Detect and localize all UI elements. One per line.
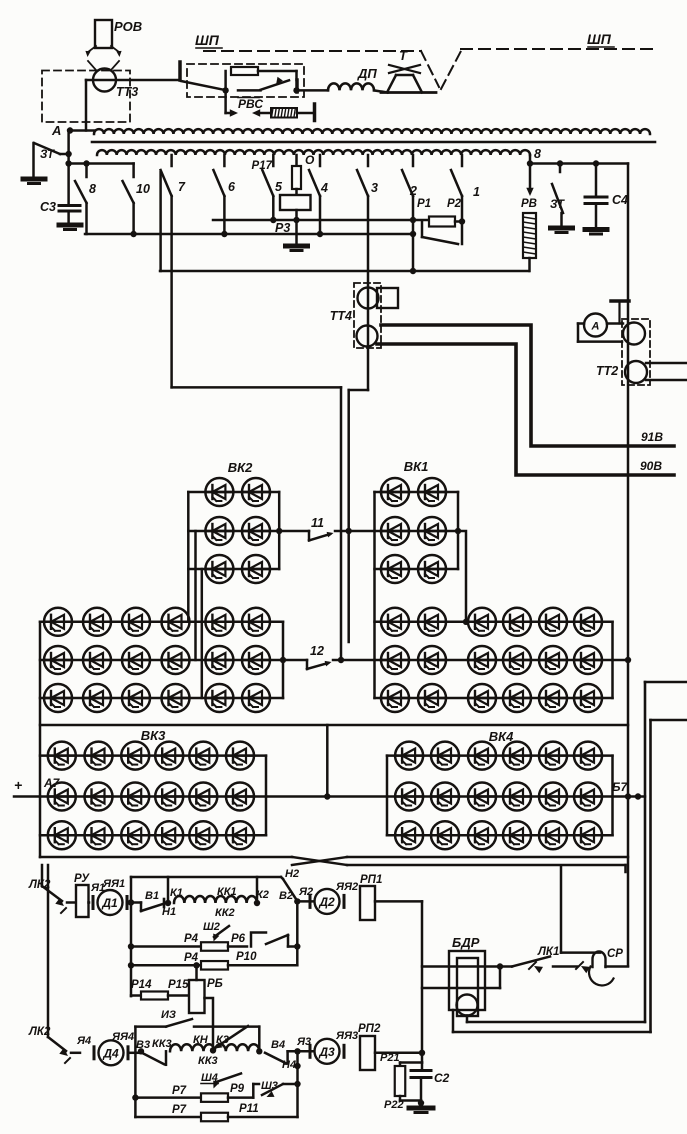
label VK3 <box>141 728 166 743</box>
relay BDR <box>449 935 485 1016</box>
svg-text:5: 5 <box>275 180 283 194</box>
box2 top edge <box>135 1009 259 1027</box>
label KK2 <box>215 907 235 919</box>
wire branch down <box>419 1050 425 1063</box>
svg-text:СР: СР <box>607 948 623 960</box>
svg-text:В1: В1 <box>145 890 159 902</box>
svg-text:Н4: Н4 <box>282 1059 296 1071</box>
right bus box2 <box>296 1051 299 1117</box>
wire D1 to box <box>128 899 141 905</box>
resistor R17 <box>252 160 301 189</box>
RVS dashed box <box>187 64 304 97</box>
net ShP left label <box>195 32 222 48</box>
svg-text:11: 11 <box>311 516 324 530</box>
svg-text:6: 6 <box>228 180 236 194</box>
switch contact bar <box>178 62 182 80</box>
label DP <box>357 66 377 81</box>
svg-text:Р11: Р11 <box>239 1103 259 1115</box>
label VK1 <box>404 459 429 474</box>
VK4 left edge <box>386 756 389 836</box>
wire conductor from TT3 <box>86 79 180 82</box>
svg-text:С3: С3 <box>40 200 56 214</box>
relay RP1 <box>360 874 382 920</box>
fuse POV <box>95 19 142 48</box>
wire RB to KN <box>205 998 214 1050</box>
svg-text:Д3: Д3 <box>318 1045 335 1059</box>
svg-text:3: 3 <box>371 181 378 195</box>
wire to D2 <box>297 886 313 901</box>
svg-text:В2: В2 <box>279 890 293 902</box>
left-mid row2 diodes <box>40 646 283 674</box>
switch ZT left <box>34 143 69 177</box>
svg-text:ВК4: ВК4 <box>489 729 514 744</box>
label YaYa2 <box>335 881 358 893</box>
svg-text:4: 4 <box>320 181 328 195</box>
VK3 right edge <box>265 756 268 836</box>
right-mid row2 diodes <box>375 646 632 674</box>
wire 91V <box>381 325 674 446</box>
svg-text:90В: 90В <box>640 459 662 473</box>
svg-text:КК3: КК3 <box>152 1038 172 1050</box>
node B7 <box>612 780 645 800</box>
switch 11 <box>279 516 374 540</box>
svg-text:Т: Т <box>399 48 408 63</box>
svg-text:РП1: РП1 <box>360 874 382 886</box>
rectifier VK4 row1 diodes <box>387 742 613 770</box>
motor D1 <box>93 890 127 915</box>
svg-text:12: 12 <box>310 644 324 658</box>
svg-text:КК2: КК2 <box>215 907 235 919</box>
bus right stub lower <box>651 720 687 1032</box>
capacitor C4 <box>585 164 628 229</box>
svg-text:А: А <box>591 321 600 333</box>
svg-text:КН: КН <box>193 1034 209 1046</box>
left-mid / VK3 left bus <box>39 622 42 857</box>
VK1 right edge <box>455 492 461 569</box>
net ShP right label <box>587 31 614 47</box>
rectifier VK2 row2 diodes <box>188 517 279 545</box>
node +A7 <box>14 776 61 797</box>
ground for R3 <box>286 246 308 251</box>
switch V2 N2 <box>279 868 300 905</box>
svg-text:2: 2 <box>409 184 417 198</box>
inductor DP <box>328 83 374 90</box>
node 8 <box>527 147 541 167</box>
svg-text:ВК3: ВК3 <box>141 728 166 743</box>
RVS plunger bar <box>297 104 315 121</box>
svg-text:Д1: Д1 <box>101 896 118 910</box>
bus crossover <box>40 857 628 872</box>
svg-text:С4: С4 <box>612 193 628 207</box>
RVS lower contact blade <box>238 77 289 91</box>
tap arrow Sh4 <box>201 1072 241 1089</box>
svg-text:А: А <box>51 123 61 138</box>
svg-text:Д4: Д4 <box>102 1046 119 1060</box>
wire R1 to tap1 <box>447 198 465 225</box>
VK1-rightmid left edge <box>373 492 376 698</box>
wire VK1 row2 to rightmid <box>458 531 469 625</box>
wire RP2 right <box>375 1052 422 1064</box>
wire VK2 row2 down <box>194 531 197 660</box>
wire to D4 <box>76 1031 134 1047</box>
tap 0 label <box>305 153 315 167</box>
row R4 R6 <box>128 933 301 951</box>
RVS heater coil hatched <box>271 108 297 118</box>
arrester T <box>381 48 436 93</box>
ammeter A <box>584 314 607 337</box>
VK2 left edge <box>187 492 190 622</box>
svg-text:ВК1: ВК1 <box>404 459 429 474</box>
relay RU <box>74 873 90 917</box>
wire feed line 387 <box>172 386 341 389</box>
wire 90V <box>377 344 674 475</box>
wire K3 branch <box>256 1027 262 1055</box>
switch V4 <box>265 1039 296 1071</box>
transformer TT4 <box>330 283 398 348</box>
svg-text:ДП: ДП <box>357 66 377 81</box>
wire left node verticals <box>65 131 71 206</box>
svg-text:ИЗ: ИЗ <box>161 1009 176 1021</box>
label VK4 <box>489 729 514 744</box>
svg-text:8: 8 <box>89 182 96 196</box>
svg-text:ТТ4: ТТ4 <box>330 309 352 323</box>
relay RP2 <box>358 1023 381 1070</box>
switch 12 <box>280 644 375 669</box>
resistor R1 <box>417 198 455 227</box>
bus right stub upper <box>645 682 687 1022</box>
svg-text:Н2: Н2 <box>285 868 299 880</box>
signal relay SR <box>589 948 628 985</box>
svg-text:Р17: Р17 <box>252 160 273 172</box>
left-mid right edge <box>282 622 285 698</box>
ground for C3 <box>59 225 81 230</box>
wire D4 to box <box>130 1052 142 1055</box>
switch V1 <box>141 890 176 918</box>
wire mid link bus <box>40 725 628 800</box>
svg-text:В4: В4 <box>271 1039 285 1051</box>
row R7 R11 <box>135 1103 297 1121</box>
rectifier VK3 row3 diodes <box>40 821 266 849</box>
svg-text:ЯЯ1: ЯЯ1 <box>102 878 125 890</box>
wire to D3 <box>288 1036 313 1055</box>
svg-text:Р7: Р7 <box>172 1085 187 1097</box>
RVS actuator arrows <box>226 90 271 116</box>
svg-text:РУ: РУ <box>74 873 90 885</box>
tap switch 6 <box>213 155 236 234</box>
bus right vertical <box>627 164 630 967</box>
svg-text:Р6: Р6 <box>231 933 246 945</box>
right-mid right edge <box>611 622 614 698</box>
svg-text:91В: 91В <box>641 430 663 444</box>
ground C2 <box>409 1108 433 1113</box>
svg-text:10: 10 <box>136 182 150 196</box>
wire RV down <box>528 258 531 271</box>
wire RU to D1 <box>89 878 126 903</box>
TT2 secondary wires <box>646 363 687 380</box>
rectifier VK1 row3 diodes <box>375 555 459 583</box>
switch ZT right <box>550 164 565 227</box>
svg-text:Р1: Р1 <box>417 198 431 210</box>
switch Sh3 <box>253 1063 300 1097</box>
wire TT4 jog <box>349 390 368 642</box>
svg-text:ШП: ШП <box>195 32 220 48</box>
node RVS-left <box>222 87 228 93</box>
wire bus to lower bus <box>410 220 416 271</box>
motor D3 <box>310 1039 344 1064</box>
tap switch 5 <box>262 155 283 220</box>
bus lower collector <box>160 268 529 274</box>
transformer TT3 <box>93 69 138 100</box>
switch V3 <box>136 1038 172 1065</box>
wire to DP <box>299 89 329 92</box>
transformer secondary winding <box>97 150 530 155</box>
wire taps 8-10 feed <box>69 162 134 165</box>
bus tap line lower <box>85 231 413 237</box>
capacitor C3 <box>40 200 80 224</box>
transformer primary winding <box>94 129 650 134</box>
relay RB <box>189 962 223 1013</box>
contact bar right <box>293 80 299 94</box>
switch LK2 upper <box>28 879 76 913</box>
svg-text:К3: К3 <box>216 1034 229 1046</box>
wire tap7 blade down <box>159 172 162 271</box>
switch LK1 <box>500 946 590 973</box>
relay R3 <box>275 189 311 235</box>
resistor R22 <box>384 1063 422 1112</box>
transformer core line <box>92 141 655 144</box>
wire K1 branch <box>165 877 183 906</box>
svg-text:Н1: Н1 <box>162 906 176 918</box>
rectifier VK1 row2 diodes <box>375 517 459 545</box>
tap switch 8 <box>75 160 96 234</box>
TT3 dashed box <box>42 71 130 123</box>
resistor RV hatched <box>523 213 536 258</box>
tap switch 10 <box>123 164 150 235</box>
wire RP1 right <box>375 900 422 903</box>
resistor RVS upper branch <box>226 67 297 90</box>
wire VK2 row3 down <box>201 569 204 698</box>
switch KN arrow <box>215 1026 249 1049</box>
relay RV arrow <box>521 164 537 211</box>
wire feed 12 vertical <box>340 387 343 660</box>
wire DP to T <box>374 90 388 92</box>
left-mid row3 diodes <box>40 684 283 712</box>
wire BDR input2 <box>422 967 500 989</box>
tap switch 3 <box>357 155 378 196</box>
label VK2 <box>228 460 253 475</box>
motor D2 <box>310 889 344 914</box>
wire BDR bottom out <box>467 1016 645 1023</box>
svg-text:Р10: Р10 <box>236 951 257 963</box>
transformer TT2 <box>596 319 650 385</box>
box1 top edge <box>131 876 281 879</box>
inductor KK3 <box>170 1034 259 1054</box>
ground ZT right <box>551 228 573 233</box>
svg-text:Р9: Р9 <box>230 1083 245 1095</box>
tap switch 7 <box>161 155 186 196</box>
svg-text:Р15: Р15 <box>168 979 189 991</box>
wire BDR input1 <box>422 963 503 969</box>
ground C4 <box>585 230 607 235</box>
label YaYa3 <box>335 1030 358 1042</box>
switch blade to RVS <box>181 81 224 90</box>
capacitor C2 <box>411 1063 450 1101</box>
svg-text:1: 1 <box>473 185 480 199</box>
wire BDR left down <box>453 1010 651 1032</box>
left-mid row1 diodes <box>40 608 283 636</box>
tap arrow Sh2 <box>203 921 229 942</box>
rectifier VK3 row1 diodes <box>40 742 266 770</box>
svg-text:РОВ: РОВ <box>114 19 142 34</box>
POV lead arrows <box>85 46 121 70</box>
wire R3 to ground <box>293 210 299 244</box>
row R4 R10 <box>128 951 297 970</box>
wire tap7 down long <box>170 196 173 387</box>
VK2 right edge <box>276 492 282 569</box>
svg-text:ТТ2: ТТ2 <box>596 364 618 378</box>
svg-text:Я4: Я4 <box>76 1035 91 1047</box>
row R7 R9 <box>132 1083 253 1102</box>
wire RP-BDR vertical <box>421 901 424 1052</box>
resistor R14 row <box>131 979 189 1000</box>
rectifier VK4 row2 diodes <box>387 783 613 811</box>
svg-text:7: 7 <box>178 180 186 194</box>
box2 left bus <box>134 1027 137 1117</box>
rectifier VK2 row1 diodes <box>188 478 279 506</box>
svg-text:БДР: БДР <box>452 935 480 950</box>
svg-text:Р2: Р2 <box>447 198 462 210</box>
svg-text:Р14: Р14 <box>131 979 152 991</box>
inductor KK1 <box>174 886 269 903</box>
ground for ZT left <box>23 179 45 184</box>
svg-text:РП2: РП2 <box>358 1023 381 1035</box>
switch LK2 lower <box>28 1026 80 1063</box>
node A <box>51 123 73 138</box>
svg-text:Ш2: Ш2 <box>203 921 220 933</box>
wire VK3row2 to VK4 <box>266 795 387 798</box>
rectifier VK4 row3 diodes <box>387 821 613 849</box>
rectifier VK2 row3 diodes <box>188 555 279 583</box>
svg-text:8: 8 <box>534 147 541 161</box>
svg-text:РБ: РБ <box>207 978 223 990</box>
wire tap3 through TT4 <box>367 196 370 390</box>
right-mid row3 diodes <box>375 684 613 712</box>
right-mid row1 diodes <box>375 608 613 636</box>
tap switch 2 <box>402 155 417 220</box>
ammeter bracket <box>578 324 623 342</box>
box1 left bus <box>130 877 133 996</box>
svg-text:+: + <box>14 777 22 793</box>
label KK3 lower <box>198 1055 218 1067</box>
svg-text:РВ: РВ <box>521 198 537 210</box>
svg-text:РВС: РВС <box>238 97 263 111</box>
wire K2 branch <box>254 877 260 906</box>
svg-text:Р4: Р4 <box>184 933 199 945</box>
TT2 chassis bar <box>611 301 629 324</box>
tap switch 4 <box>309 155 328 234</box>
right bus box1 <box>296 901 299 965</box>
wire TT3 down to node A <box>69 80 94 131</box>
svg-text:ВК2: ВК2 <box>228 460 253 475</box>
switch R2 bypass <box>422 222 462 244</box>
svg-text:О: О <box>305 153 315 167</box>
wire tap0 down <box>295 155 298 166</box>
svg-text:Б7: Б7 <box>612 780 628 794</box>
bus node8 to right <box>530 160 628 166</box>
label RVS <box>238 97 263 111</box>
svg-text:С2: С2 <box>434 1071 450 1085</box>
dashed bus ShP <box>204 49 655 89</box>
VK4 right edge <box>611 756 614 836</box>
svg-text:Д2: Д2 <box>318 895 335 909</box>
rectifier VK3 row2 diodes <box>40 783 266 811</box>
wire join to ground <box>400 1100 424 1106</box>
rectifier VK1 row1 diodes <box>375 478 459 506</box>
wire SR top feed <box>561 867 600 953</box>
motor D4 <box>94 1040 128 1065</box>
tap switch 1 <box>451 155 480 220</box>
svg-text:ТТ3: ТТ3 <box>116 85 138 99</box>
svg-text:Р21: Р21 <box>380 1052 400 1064</box>
svg-text:Р7: Р7 <box>172 1104 187 1116</box>
svg-text:ЯЯ3: ЯЯ3 <box>335 1030 358 1042</box>
svg-text:КК3: КК3 <box>198 1055 218 1067</box>
svg-text:ЯЯ2: ЯЯ2 <box>335 881 358 893</box>
wire LK2 feeds <box>42 865 48 1037</box>
svg-text:ШП: ШП <box>587 31 612 47</box>
bus tap line upper <box>213 217 429 223</box>
